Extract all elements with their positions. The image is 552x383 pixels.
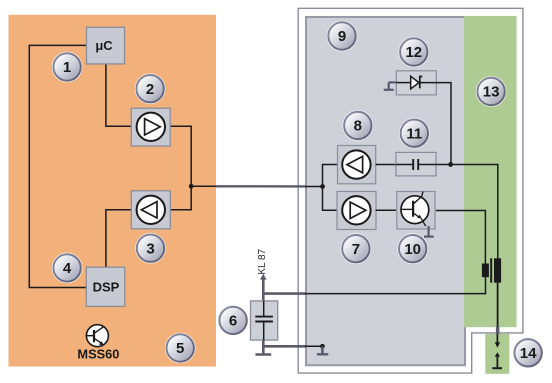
- svg-text:5: 5: [176, 340, 184, 357]
- node B junction: [320, 184, 325, 189]
- svg-text:2: 2: [146, 81, 154, 98]
- svg-text:9: 9: [338, 28, 346, 45]
- svg-text:μC: μC: [95, 38, 113, 53]
- ground C6: [255, 353, 271, 355]
- wire KL87 node to coil primary (slate part): [262, 292, 306, 295]
- wire uC to amp2: [106, 64, 131, 126]
- ignition coil primary winding: [482, 264, 489, 278]
- svg-text:DSP: DSP: [93, 279, 120, 294]
- callout 7: [341, 233, 372, 264]
- transistor symbol MSS60: [86, 325, 108, 347]
- svg-text:MSS60: MSS60: [77, 347, 119, 362]
- amplifier 7 block: [337, 192, 376, 230]
- transistor T10 block: [397, 192, 435, 230]
- callout 10: [397, 233, 428, 264]
- wire into coil panel to node B: [305, 186, 323, 188]
- node C junction: [320, 344, 325, 349]
- callout 6: [218, 305, 249, 336]
- wire C11 to node D: [436, 164, 451, 166]
- svg-text:11: 11: [406, 125, 422, 142]
- callout 8: [343, 110, 374, 141]
- wire C6 to ground: [262, 340, 265, 353]
- diode D12 block (zener): [396, 71, 436, 95]
- wire node D to coil secondary: [451, 165, 498, 259]
- callout 13: [476, 76, 507, 107]
- callout 14: [513, 338, 544, 369]
- callout 11: [399, 118, 430, 149]
- wire KL87 down to capacitor C6: [262, 279, 265, 302]
- svg-text:3: 3: [146, 240, 154, 257]
- housing feedthrough connector: [496, 327, 500, 334]
- wire to coil primary (black part inside panel): [305, 277, 486, 294]
- svg-text:13: 13: [483, 84, 500, 101]
- node D junction: [448, 162, 453, 167]
- svg-text:1: 1: [63, 59, 71, 76]
- wire C6 node to panel ground (slate part): [262, 345, 306, 348]
- svg-text:6: 6: [229, 313, 237, 330]
- wire D12 to node D: [436, 83, 451, 165]
- svg-text:KL 87: KL 87: [257, 248, 268, 274]
- ground at T10 emitter: [424, 226, 434, 237]
- wire amp3 to DSP: [106, 210, 131, 267]
- spark plug well (narrow green strip): [485, 334, 509, 374]
- wire black part to node C: [305, 345, 322, 347]
- terminal symbol left of D12: [384, 82, 397, 89]
- svg-text:10: 10: [404, 241, 421, 258]
- capacitor C6 block: [251, 301, 278, 340]
- KL87 terminal arrow (up): [260, 274, 267, 280]
- spark gap upper electrode (down arrow): [495, 334, 500, 348]
- svg-text:8: 8: [354, 118, 362, 135]
- wire node B to amp8: [323, 165, 338, 187]
- svg-text:7: 7: [352, 241, 360, 258]
- wire amp8 to capacitor C11: [376, 164, 396, 166]
- node junction in orange panel: [189, 184, 194, 189]
- wire node to panel edge (black): [191, 185, 216, 187]
- svg-text:14: 14: [520, 345, 537, 362]
- wire amp7 to transistor T10: [376, 209, 396, 211]
- ignition coil housing frame (white, notched): [298, 8, 523, 373]
- capacitor C11 block: [396, 152, 436, 176]
- ignition coil secondary winding: [494, 258, 501, 282]
- wire secondary to spark connector: [497, 283, 499, 328]
- callout 12: [399, 37, 430, 68]
- callout 5: [165, 333, 196, 364]
- svg-text:4: 4: [63, 260, 72, 277]
- callout 3: [135, 233, 166, 264]
- callout 2: [135, 73, 166, 104]
- wire amp2 output down to node: [170, 126, 191, 186]
- amplifier 8 block: [338, 146, 376, 184]
- ground at node C: [317, 346, 328, 354]
- interconnect wire between housings (slate): [216, 185, 306, 187]
- high-voltage zone (green strip): [464, 16, 517, 327]
- ignition coil core: [490, 258, 492, 282]
- callout 4: [52, 253, 83, 284]
- wire loop uC-DSP (left): [29, 45, 86, 287]
- uC block: [87, 27, 125, 64]
- wire node B to amp7: [323, 187, 338, 211]
- callout 1: [52, 52, 83, 83]
- wire node to amp3: [170, 186, 191, 210]
- svg-text:12: 12: [405, 44, 422, 61]
- spark gap lower electrode (up arrow): [492, 352, 502, 368]
- coil electronics panel (gray): [306, 17, 465, 365]
- ECU housing panel (orange, MSS60): [9, 15, 217, 367]
- amplifier 2 block: [131, 108, 170, 146]
- amplifier 3 block: [131, 191, 170, 229]
- callout 9: [327, 21, 358, 52]
- DSP block: [86, 267, 124, 306]
- wire T10 to coil primary: [436, 211, 486, 264]
